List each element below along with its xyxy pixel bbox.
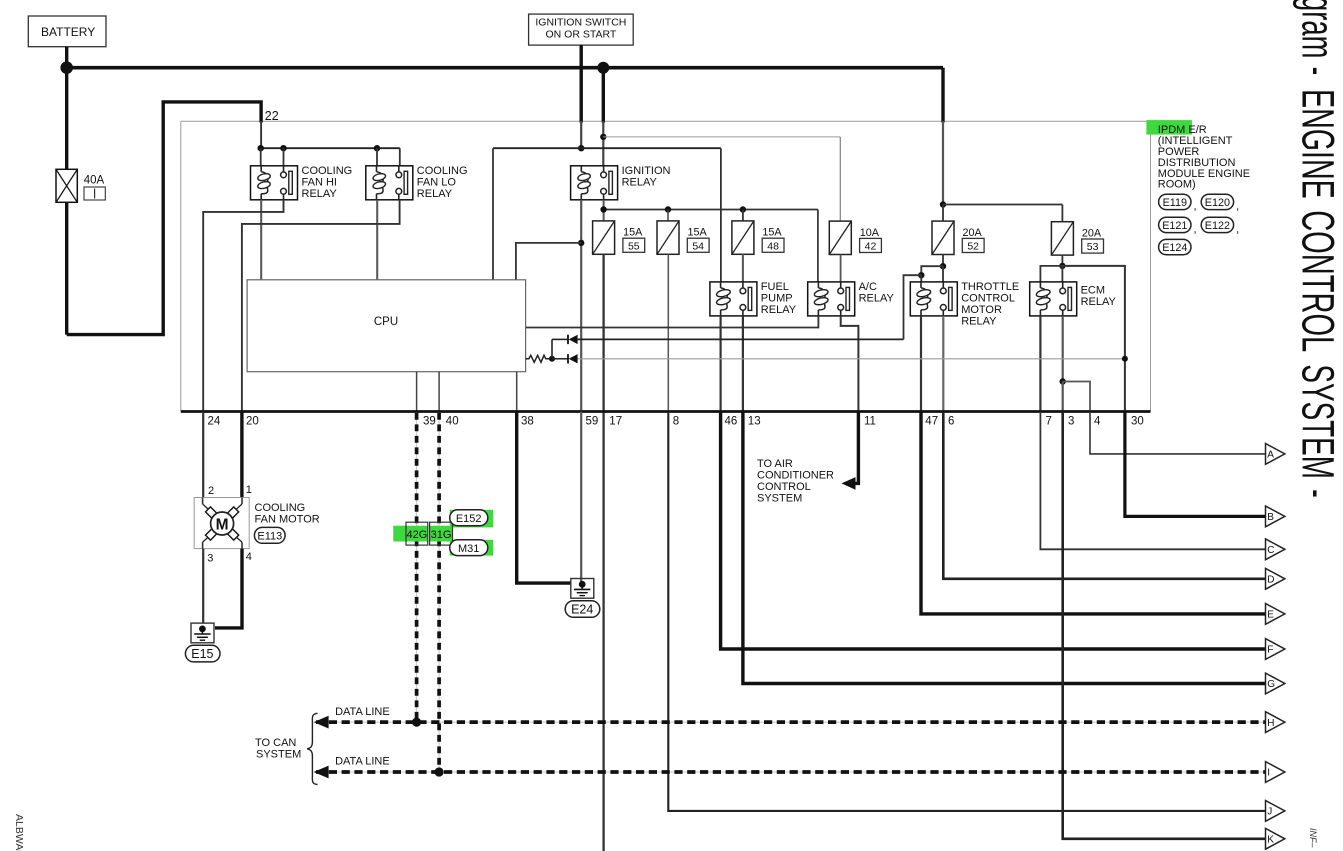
svg-text:E152: E152 bbox=[456, 513, 482, 525]
svg-text:RELAY: RELAY bbox=[961, 315, 997, 327]
svg-text:42G: 42G bbox=[407, 529, 428, 541]
svg-text:E113: E113 bbox=[257, 531, 282, 543]
svg-text:G: G bbox=[1267, 679, 1275, 690]
svg-text:TO CAN: TO CAN bbox=[255, 737, 296, 749]
svg-text:2: 2 bbox=[208, 485, 214, 497]
svg-text:4: 4 bbox=[1094, 416, 1101, 428]
svg-text:E122: E122 bbox=[1205, 220, 1230, 232]
svg-text:E124: E124 bbox=[1162, 242, 1187, 254]
svg-text:THROTTLE: THROTTLE bbox=[961, 281, 1019, 293]
svg-text:M31: M31 bbox=[458, 543, 479, 555]
svg-text:8: 8 bbox=[673, 416, 679, 428]
svg-text:E15: E15 bbox=[191, 647, 213, 661]
svg-text:52: 52 bbox=[967, 241, 979, 253]
svg-text:COOLING: COOLING bbox=[302, 165, 353, 177]
svg-text:DATA LINE: DATA LINE bbox=[335, 756, 390, 768]
svg-text:FAN HI: FAN HI bbox=[302, 176, 337, 188]
svg-text:ON OR START: ON OR START bbox=[546, 29, 617, 41]
svg-text:MOTOR: MOTOR bbox=[961, 304, 1002, 316]
svg-text:SYSTEM: SYSTEM bbox=[1293, 364, 1343, 479]
svg-text:20A: 20A bbox=[1082, 228, 1102, 240]
svg-text:,: , bbox=[1236, 201, 1239, 213]
svg-text:RELAY: RELAY bbox=[761, 304, 797, 316]
svg-text:3: 3 bbox=[1068, 416, 1074, 428]
svg-text:,: , bbox=[1236, 224, 1239, 236]
svg-text:15A: 15A bbox=[623, 227, 643, 239]
svg-text:A/C: A/C bbox=[859, 281, 877, 293]
svg-text:31G: 31G bbox=[431, 529, 452, 541]
svg-text:,: , bbox=[1194, 201, 1197, 213]
svg-text:CONTROL: CONTROL bbox=[757, 481, 811, 493]
svg-text:42: 42 bbox=[865, 241, 877, 253]
svg-text:59: 59 bbox=[586, 416, 599, 428]
svg-text:RELAY: RELAY bbox=[417, 188, 453, 200]
svg-text:53: 53 bbox=[1087, 241, 1099, 253]
svg-text:55: 55 bbox=[628, 240, 640, 252]
svg-text:I: I bbox=[1267, 768, 1270, 779]
svg-text:DATA LINE: DATA LINE bbox=[335, 706, 390, 718]
svg-text:7: 7 bbox=[1046, 416, 1052, 428]
svg-text:47: 47 bbox=[925, 416, 938, 428]
svg-text:IGNITION SWITCH: IGNITION SWITCH bbox=[535, 17, 626, 29]
svg-text:RELAY: RELAY bbox=[859, 292, 895, 304]
svg-text:-: - bbox=[1293, 67, 1343, 75]
svg-text:,: , bbox=[1194, 224, 1197, 236]
svg-text:15A: 15A bbox=[688, 227, 708, 239]
svg-text:CONTROL: CONTROL bbox=[1293, 210, 1343, 352]
svg-text:15A: 15A bbox=[762, 227, 782, 239]
svg-text:A: A bbox=[1267, 450, 1274, 461]
svg-text:-: - bbox=[1293, 489, 1343, 497]
svg-text:SYSTEM: SYSTEM bbox=[757, 493, 802, 505]
svg-text:TO AIR: TO AIR bbox=[757, 458, 793, 470]
svg-text:20A: 20A bbox=[963, 227, 983, 239]
svg-text:CONDITIONER: CONDITIONER bbox=[757, 470, 834, 482]
svg-text:17: 17 bbox=[609, 416, 622, 428]
svg-text:ECM: ECM bbox=[1081, 285, 1105, 297]
svg-text:3: 3 bbox=[207, 552, 213, 564]
svg-text:FAN LO: FAN LO bbox=[417, 176, 457, 188]
svg-text:M: M bbox=[216, 517, 229, 534]
svg-text:IGNITION: IGNITION bbox=[622, 165, 671, 177]
svg-text:1: 1 bbox=[246, 484, 252, 496]
svg-text:6: 6 bbox=[948, 416, 954, 428]
svg-text:11: 11 bbox=[864, 416, 876, 428]
svg-text:INF–: INF– bbox=[1308, 828, 1318, 848]
svg-text:RELAY: RELAY bbox=[302, 188, 338, 200]
svg-text:gram: gram bbox=[1293, 0, 1343, 58]
svg-text:40: 40 bbox=[446, 416, 459, 428]
svg-text:RELAY: RELAY bbox=[622, 176, 658, 188]
svg-text:ENGINE: ENGINE bbox=[1293, 89, 1343, 199]
svg-text:30: 30 bbox=[1131, 416, 1144, 428]
svg-text:ROOM): ROOM) bbox=[1158, 179, 1196, 191]
svg-text:ALBWA0511GB: ALBWA0511GB bbox=[13, 814, 25, 851]
svg-text:BATTERY: BATTERY bbox=[41, 25, 95, 39]
svg-text:F: F bbox=[1267, 645, 1273, 656]
svg-text:RELAY: RELAY bbox=[1081, 296, 1117, 308]
svg-text:46: 46 bbox=[725, 416, 738, 428]
svg-text:H: H bbox=[1267, 718, 1274, 729]
svg-text:13: 13 bbox=[748, 416, 761, 428]
svg-text:PUMP: PUMP bbox=[761, 292, 793, 304]
svg-text:10A: 10A bbox=[860, 227, 880, 239]
svg-text:E119: E119 bbox=[1163, 197, 1187, 209]
svg-text:4: 4 bbox=[246, 551, 252, 563]
svg-text:E120: E120 bbox=[1205, 197, 1230, 209]
svg-text:20: 20 bbox=[246, 416, 259, 428]
svg-text:CONTROL: CONTROL bbox=[961, 292, 1015, 304]
svg-text:E: E bbox=[1267, 610, 1274, 621]
svg-text:38: 38 bbox=[521, 416, 534, 428]
svg-text:COOLING: COOLING bbox=[255, 502, 306, 514]
svg-text:K: K bbox=[1267, 835, 1274, 846]
svg-text:SYSTEM: SYSTEM bbox=[256, 748, 301, 760]
svg-text:48: 48 bbox=[767, 240, 779, 252]
svg-text:J: J bbox=[1267, 807, 1272, 818]
svg-text:C: C bbox=[1267, 545, 1274, 556]
svg-text:24: 24 bbox=[208, 416, 221, 428]
svg-text:E121: E121 bbox=[1162, 220, 1187, 232]
svg-text:B: B bbox=[1267, 512, 1274, 523]
svg-text:FUEL: FUEL bbox=[761, 281, 789, 293]
svg-text:CPU: CPU bbox=[374, 316, 398, 328]
svg-text:FAN MOTOR: FAN MOTOR bbox=[255, 514, 320, 526]
svg-text:COOLING: COOLING bbox=[417, 165, 468, 177]
svg-text:22: 22 bbox=[265, 109, 279, 123]
svg-text:E24: E24 bbox=[571, 603, 593, 617]
svg-text:54: 54 bbox=[692, 240, 704, 252]
svg-text:D: D bbox=[1267, 575, 1274, 586]
svg-text:39: 39 bbox=[423, 416, 436, 428]
svg-text:40A: 40A bbox=[84, 175, 105, 187]
